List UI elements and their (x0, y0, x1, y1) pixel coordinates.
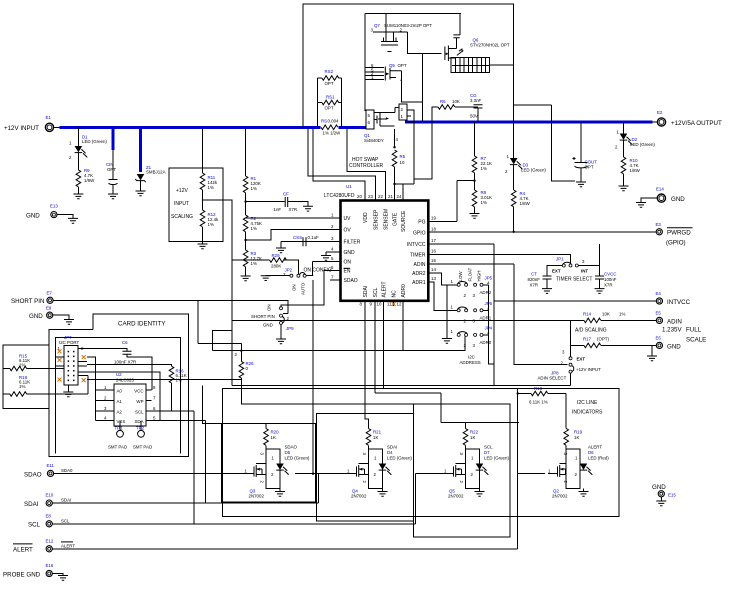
U1 left pin numbers (331, 213, 334, 280)
svg-text:CF: CF (283, 192, 289, 197)
transistor Q4 2N7002 (344, 473, 356, 475)
svg-text:SDAO: SDAO (344, 278, 358, 284)
svg-text:ADDRESS: ADDRESS (460, 360, 481, 365)
svg-text:E14: E14 (656, 187, 664, 192)
ADIN wire (428, 264, 567, 365)
svg-text:OPT: OPT (585, 165, 594, 170)
wire Q1 right pins to rail (407, 110, 414, 184)
resistor R17 (571, 320, 585, 357)
LED D4 package (369, 449, 383, 488)
terminal E12 ALERT (46, 546, 52, 552)
svg-text:E1: E1 (46, 115, 52, 120)
U1 right pin names (407, 219, 426, 286)
svg-text:A/D SCALING: A/D SCALING (575, 328, 607, 334)
I2C indicators outer box (222, 388, 619, 516)
svg-text:OPT: OPT (325, 81, 334, 86)
wire RS right to SENSEM jog (347, 129, 385, 201)
svg-text:E11: E11 (47, 463, 55, 468)
svg-text:15: 15 (431, 258, 436, 263)
svg-text:R29: R29 (272, 253, 281, 258)
svg-text:NC: NC (392, 290, 398, 298)
svg-text:EXT: EXT (552, 269, 561, 274)
svg-text:ADR0: ADR0 (480, 340, 492, 345)
svg-text:X7R: X7R (530, 283, 539, 288)
wire JP7 row4 to U2 SDA column (87, 372, 160, 421)
svg-text:LOW: LOW (458, 271, 463, 282)
resistor R13 (518, 393, 531, 395)
HIGH column tie (483, 285, 494, 364)
ground at E9 (64, 320, 74, 325)
svg-text:E6: E6 (656, 336, 662, 341)
svg-text:LED (Green): LED (Green) (387, 456, 412, 461)
wire ADR1 to JP6 (428, 282, 457, 310)
svg-text:1%: 1% (251, 261, 257, 266)
svg-text:1%: 1% (481, 166, 487, 171)
svg-text:SMT PAD: SMT PAD (133, 445, 152, 450)
svg-text:SCL: SCL (135, 409, 144, 414)
svg-text:Q7: Q7 (374, 23, 380, 28)
svg-text:SDAI: SDAI (24, 501, 39, 508)
ground below R9 (77, 187, 79, 194)
terminal E7 SHORT PIN (47, 297, 53, 303)
svg-text:D6: D6 (588, 450, 594, 455)
svg-text:1%: 1% (176, 378, 182, 383)
ALERT net wire (52, 388, 545, 549)
svg-text:GND: GND (671, 196, 685, 203)
svg-text:STV270NH02L OPT: STV270NH02L OPT (470, 43, 510, 48)
svg-text:D7: D7 (484, 450, 490, 455)
svg-text:SDA0: SDA0 (61, 468, 73, 473)
wire source jog to IC (395, 184, 415, 201)
svg-text:CARD IDENTITY: CARD IDENTITY (118, 321, 165, 328)
svg-text:6.11K 1%: 6.11K 1% (529, 400, 548, 405)
SDA0 net wire (53, 473, 247, 475)
resistor R19 (564, 429, 569, 446)
wire JP2 pin3 to ON pin (306, 261, 340, 275)
svg-text:17: 17 (431, 238, 436, 243)
svg-text:Si4840DY: Si4840DY (364, 138, 384, 143)
svg-text:E9: E9 (46, 306, 52, 311)
svg-text:16: 16 (431, 249, 436, 254)
pull-up resistor box (3, 345, 49, 408)
svg-text:ALERT: ALERT (13, 547, 33, 554)
svg-text:PROBE GND: PROBE GND (3, 572, 41, 579)
ground below R3 (245, 267, 247, 276)
LED D7 package (466, 449, 480, 488)
svg-text:0.004: 0.004 (328, 119, 340, 124)
jumper JP5 ADR2 (457, 283, 460, 286)
svg-text:3.3nF: 3.3nF (470, 98, 482, 103)
terminal E1 +12V INPUT (45, 123, 53, 131)
wire rail to R11 (202, 129, 204, 173)
wire rail to VDD jog (313, 129, 365, 201)
resistor R8 (472, 190, 477, 207)
svg-text:ON: ON (267, 304, 272, 311)
resistor R21 (366, 429, 371, 446)
jumper JP4 ADR0 (457, 333, 460, 336)
svg-text:E10: E10 (46, 493, 54, 498)
svg-text:GATE: GATE (393, 212, 399, 226)
svg-text:1K: 1K (373, 435, 378, 440)
ground for GND pin (326, 252, 341, 255)
svg-text:PG: PG (418, 219, 425, 225)
sense resistor RS (on rail) (321, 125, 338, 130)
svg-text:GND: GND (667, 344, 681, 351)
svg-text:SCL: SCL (484, 445, 493, 450)
resistor R1 (243, 176, 248, 193)
svg-text:U2: U2 (116, 372, 122, 377)
SDAI net wire (52, 474, 344, 503)
capacitor CSS on FILTER (303, 241, 341, 243)
svg-text:1nF: 1nF (274, 207, 282, 212)
LED D4 (379, 464, 392, 476)
blue drop to Z1 (139, 129, 142, 172)
sense resistor RS2 (317, 78, 341, 127)
LED D7 (476, 464, 489, 476)
svg-text:E3: E3 (656, 222, 662, 227)
svg-text:INT: INT (581, 269, 588, 274)
svg-text:100nF: 100nF (604, 277, 617, 282)
wire SHORT PIN to R26 top (198, 300, 242, 361)
svg-text:ADR1: ADR1 (412, 280, 426, 286)
svg-text:VCC: VCC (134, 388, 143, 393)
snubber cap (459, 13, 461, 35)
svg-text:R6: R6 (440, 99, 446, 104)
svg-text:E15: E15 (668, 493, 676, 498)
svg-text:(OPT): (OPT) (597, 337, 609, 342)
svg-text:1%: 1% (208, 185, 214, 190)
svg-text:R5: R5 (400, 154, 406, 159)
jumper JP8 ADIN select (569, 357, 572, 360)
ground below R8 (474, 207, 476, 214)
wire E7 to JP9 (53, 300, 288, 313)
ground at E15 (656, 501, 666, 506)
svg-text:CSS: CSS (293, 235, 302, 240)
svg-text:R19: R19 (574, 430, 583, 435)
resistor R29 ON config (232, 259, 270, 261)
svg-text:R21: R21 (373, 430, 382, 435)
svg-text:1% 1/2W: 1% 1/2W (323, 131, 342, 136)
svg-text:ALERT: ALERT (61, 543, 75, 548)
svg-text:SOURCE: SOURCE (401, 210, 407, 232)
wire box1 top to R20 (265, 424, 267, 429)
transistor Q3 2N7002 (247, 473, 254, 475)
svg-text:I2C PORT: I2C PORT (59, 340, 79, 345)
svg-text:GND: GND (263, 323, 273, 328)
ground below JP9 (280, 324, 282, 339)
svg-text:UV: UV (344, 216, 352, 222)
svg-text:SCALING: SCALING (171, 214, 193, 220)
svg-text:SDA: SDA (134, 419, 143, 424)
svg-text:RS2: RS2 (325, 69, 334, 74)
LED D1 (77, 127, 79, 146)
svg-text:+12V/5A OUTPUT: +12V/5A OUTPUT (671, 120, 722, 127)
svg-text:21: 21 (388, 194, 393, 199)
svg-text:12: 12 (397, 302, 402, 307)
LED D2 (623, 122, 625, 134)
resistor R14 (584, 318, 601, 323)
wire R22 to LED package (465, 445, 467, 449)
wire R2 to OV jog (246, 230, 341, 251)
terminal E2 +12V/5A OUTPUT (657, 118, 665, 126)
blue +12V input rail (60, 126, 367, 129)
wire ADR2 to JP5 (428, 273, 457, 285)
svg-text:WP: WP (136, 399, 143, 404)
resistor R16 (169, 366, 174, 383)
svg-text:OV: OV (344, 228, 352, 234)
wire rail to SENSEP jog (308, 129, 376, 201)
svg-text:HIGH: HIGH (477, 271, 482, 282)
wire R1 to UV node (245, 193, 247, 215)
svg-text:OPT: OPT (107, 167, 116, 172)
svg-text:10K: 10K (602, 312, 610, 317)
svg-text:SDAO: SDAO (24, 472, 42, 479)
svg-text:1%: 1% (251, 186, 257, 191)
svg-text:SDAI: SDAI (363, 286, 369, 298)
U1 top pin numbers (357, 194, 402, 199)
SCL net wire (52, 474, 440, 524)
svg-text:1%: 1% (251, 226, 257, 231)
terminal E3 PWRGD (656, 229, 662, 235)
wire JP7 row2 to U2 address pins (87, 357, 109, 421)
svg-text:1K: 1K (271, 435, 276, 440)
resistor R20 (264, 429, 269, 446)
terminal E11 SDAO (47, 470, 53, 476)
svg-text:RS1: RS1 (326, 95, 335, 100)
svg-text:I2C LINE: I2C LINE (577, 400, 598, 406)
TVS ladder (451, 58, 489, 73)
svg-text:SDAI: SDAI (387, 445, 397, 450)
svg-text:0.1uF: 0.1uF (308, 235, 320, 240)
LED D5 (276, 464, 289, 476)
svg-text:1K: 1K (470, 435, 475, 440)
IC U1 body (341, 201, 429, 301)
resistor R5 (392, 150, 397, 167)
resistor R26 (239, 361, 244, 378)
svg-text:LED (Green): LED (Green) (630, 142, 655, 147)
svg-text:TP2: TP2 (136, 426, 145, 431)
svg-text:ADIN: ADIN (667, 319, 682, 326)
svg-text:SUM110N03-2m2P OPT: SUM110N03-2m2P OPT (384, 23, 432, 28)
+12V INPUT SCALING box (169, 168, 223, 241)
indicator box 3 (413, 404, 510, 537)
terminal E5 ADIN (656, 317, 662, 323)
resistor R7 (474, 122, 476, 156)
svg-text:SMT PAD: SMT PAD (108, 445, 127, 450)
ground below R12 (202, 227, 204, 244)
jumper JP2 (290, 274, 293, 277)
wire box1 top extension (202, 385, 221, 423)
terminal E16 PROBE GND (46, 570, 52, 576)
INTVCC wire (428, 244, 656, 385)
svg-text:2N7002: 2N7002 (351, 494, 367, 499)
wire box3 top extension to R26 column (242, 379, 414, 404)
terminal E6 GND (656, 342, 662, 348)
capacitor CT (547, 266, 562, 277)
wire EN to JP9 (281, 271, 341, 307)
LED D6 package (566, 449, 580, 488)
wire UV pin (246, 217, 341, 219)
svg-text:INTVCC: INTVCC (407, 242, 426, 248)
svg-text:11: 11 (387, 302, 392, 307)
svg-text:R22: R22 (470, 430, 479, 435)
wire Q7 to Q6 gate (407, 32, 441, 53)
wire SDAO pin7 riser (295, 280, 319, 474)
gate/source chain R5 (394, 129, 396, 147)
svg-text:FLOAT: FLOAT (468, 267, 473, 281)
svg-text:1/8W: 1/8W (520, 201, 531, 206)
svg-text:FILTER: FILTER (344, 240, 361, 246)
jumper JP1 timer select (562, 264, 565, 267)
terminal E14 GND (657, 194, 665, 202)
X marks on JP7 (58, 349, 62, 353)
wire R11-R12 junction (203, 190, 233, 386)
svg-text:18: 18 (431, 227, 436, 232)
blue drop CIN (112, 129, 115, 150)
svg-text:R20: R20 (271, 430, 280, 435)
card identity box (49, 314, 189, 456)
svg-text:SCL: SCL (28, 522, 41, 529)
svg-text:LED (Red): LED (Red) (588, 456, 609, 461)
svg-text:INDICATORS: INDICATORS (572, 410, 603, 416)
svg-text:D5: D5 (285, 450, 291, 455)
wire source to PG divider (414, 122, 432, 179)
svg-text:1%: 1% (481, 200, 487, 205)
terminal E10 SDAI (46, 500, 52, 506)
svg-text:JP1: JP1 (556, 257, 564, 262)
svg-text:C6: C6 (122, 340, 128, 345)
svg-text:23: 23 (368, 194, 373, 199)
svg-text:ADR1: ADR1 (480, 316, 492, 321)
terminal E8 SCL (46, 521, 52, 527)
svg-text:CVCC: CVCC (604, 272, 616, 277)
svg-text:ALERT: ALERT (381, 281, 387, 297)
svg-text:SDAI: SDAI (61, 498, 71, 503)
svg-text:E5: E5 (656, 311, 662, 316)
svg-text:E13: E13 (50, 204, 58, 209)
wire R21 to LED package (368, 445, 370, 449)
wire R20 to LED package (265, 445, 267, 449)
ground at E16 (58, 576, 68, 581)
svg-text:2N7002: 2N7002 (448, 494, 464, 499)
wire SCL pin to cell3 (375, 306, 519, 429)
wire rail to R1 (245, 129, 247, 176)
U1 top pin names (rotated) (363, 209, 407, 232)
svg-text:E16: E16 (46, 563, 54, 568)
transistor Q2 2N7002 (548, 473, 557, 475)
X mark on NC pin (392, 302, 396, 306)
A/D scaling wire (232, 319, 657, 321)
svg-text:LED (Green): LED (Green) (484, 456, 509, 461)
ground below D6 (583, 489, 585, 492)
svg-text:14: 14 (431, 267, 436, 272)
svg-text:VSS: VSS (117, 419, 126, 424)
svg-text:10: 10 (377, 302, 382, 307)
svg-text:13: 13 (431, 276, 436, 281)
ground below D5 (279, 489, 281, 492)
svg-text:50V: 50V (470, 114, 478, 119)
svg-text:E7: E7 (47, 291, 53, 296)
svg-text:R14: R14 (583, 312, 592, 317)
svg-text:GND: GND (29, 313, 43, 320)
LOW column ground (447, 285, 457, 339)
svg-text:22: 22 (378, 194, 383, 199)
svg-text:EXT: EXT (577, 357, 586, 362)
ground below JP7 (67, 385, 69, 392)
svg-text:20: 20 (357, 194, 362, 199)
svg-text:LED (Green): LED (Green) (82, 139, 107, 144)
svg-text:A1: A1 (117, 399, 123, 404)
svg-text:1%: 1% (208, 222, 214, 227)
ground below CIN (108, 194, 118, 199)
ground below Z1 (136, 191, 146, 196)
indicator box 2 (317, 414, 414, 521)
svg-text:INPUT: INPUT (174, 201, 189, 207)
svg-text:GND: GND (344, 250, 356, 256)
ground on E6 wire (651, 345, 653, 356)
svg-text:SHORT PIN: SHORT PIN (11, 298, 44, 305)
svg-text:280K: 280K (271, 264, 281, 269)
svg-text:GND: GND (26, 213, 40, 220)
svg-text:SENSEP: SENSEP (374, 209, 380, 230)
wire rail to E2 (653, 121, 658, 123)
PWRGD wire (428, 231, 656, 233)
wire E1 to rail (54, 126, 60, 128)
ground below D4 (382, 489, 384, 492)
svg-text:19: 19 (431, 216, 436, 221)
svg-text:1/8W: 1/8W (630, 168, 641, 173)
svg-text:TIMER SELECT: TIMER SELECT (556, 277, 592, 283)
svg-text:1K: 1K (574, 435, 579, 440)
svg-text:(GPIO): (GPIO) (666, 240, 686, 247)
svg-text:INTVCC: INTVCC (667, 299, 691, 306)
svg-text:EN: EN (344, 269, 351, 275)
indicator box 1 (222, 424, 316, 503)
wire U2 SDA down to SDAI net (152, 421, 206, 503)
svg-text:U1: U1 (346, 184, 352, 189)
svg-text:+12V INPUT: +12V INPUT (4, 125, 39, 132)
svg-text:A0: A0 (117, 388, 123, 393)
svg-text:SENSEM: SENSEM (383, 209, 389, 230)
resistor R4 (513, 165, 515, 190)
wire ADR0 to JP4 (213, 306, 465, 351)
svg-text:E8: E8 (46, 514, 52, 519)
svg-text:E4: E4 (656, 291, 662, 296)
jumper JP9 short pin (280, 307, 283, 310)
svg-text:LED (Green): LED (Green) (521, 168, 546, 173)
svg-text:1%: 1% (619, 312, 625, 317)
wire JP7 row3 to R16 (87, 364, 172, 366)
wire card identity inner bus loop (56, 338, 181, 454)
svg-text:ADR2: ADR2 (412, 271, 426, 277)
svg-text:E12: E12 (46, 539, 54, 544)
svg-text:ON: ON (292, 284, 297, 291)
resistor R12 (200, 210, 205, 227)
svg-text:AUTO: AUTO (301, 282, 306, 295)
TIMER wire (428, 255, 570, 264)
svg-text:24LC025: 24LC025 (116, 378, 134, 383)
svg-text:TIMER: TIMER (410, 253, 426, 259)
U1 bottom pin stubs (365, 301, 403, 306)
ground below D7 (479, 489, 481, 492)
wire R19 to LED package (565, 445, 567, 449)
terminal E4 INTVCC (656, 298, 662, 304)
wire JP7 row5 to R26 bottom (87, 378, 241, 379)
svg-text:SHORT PIN: SHORT PIN (251, 314, 275, 319)
ground at E13 (68, 218, 78, 223)
svg-text:E2: E2 (657, 110, 663, 115)
svg-text:ON: ON (344, 260, 352, 266)
